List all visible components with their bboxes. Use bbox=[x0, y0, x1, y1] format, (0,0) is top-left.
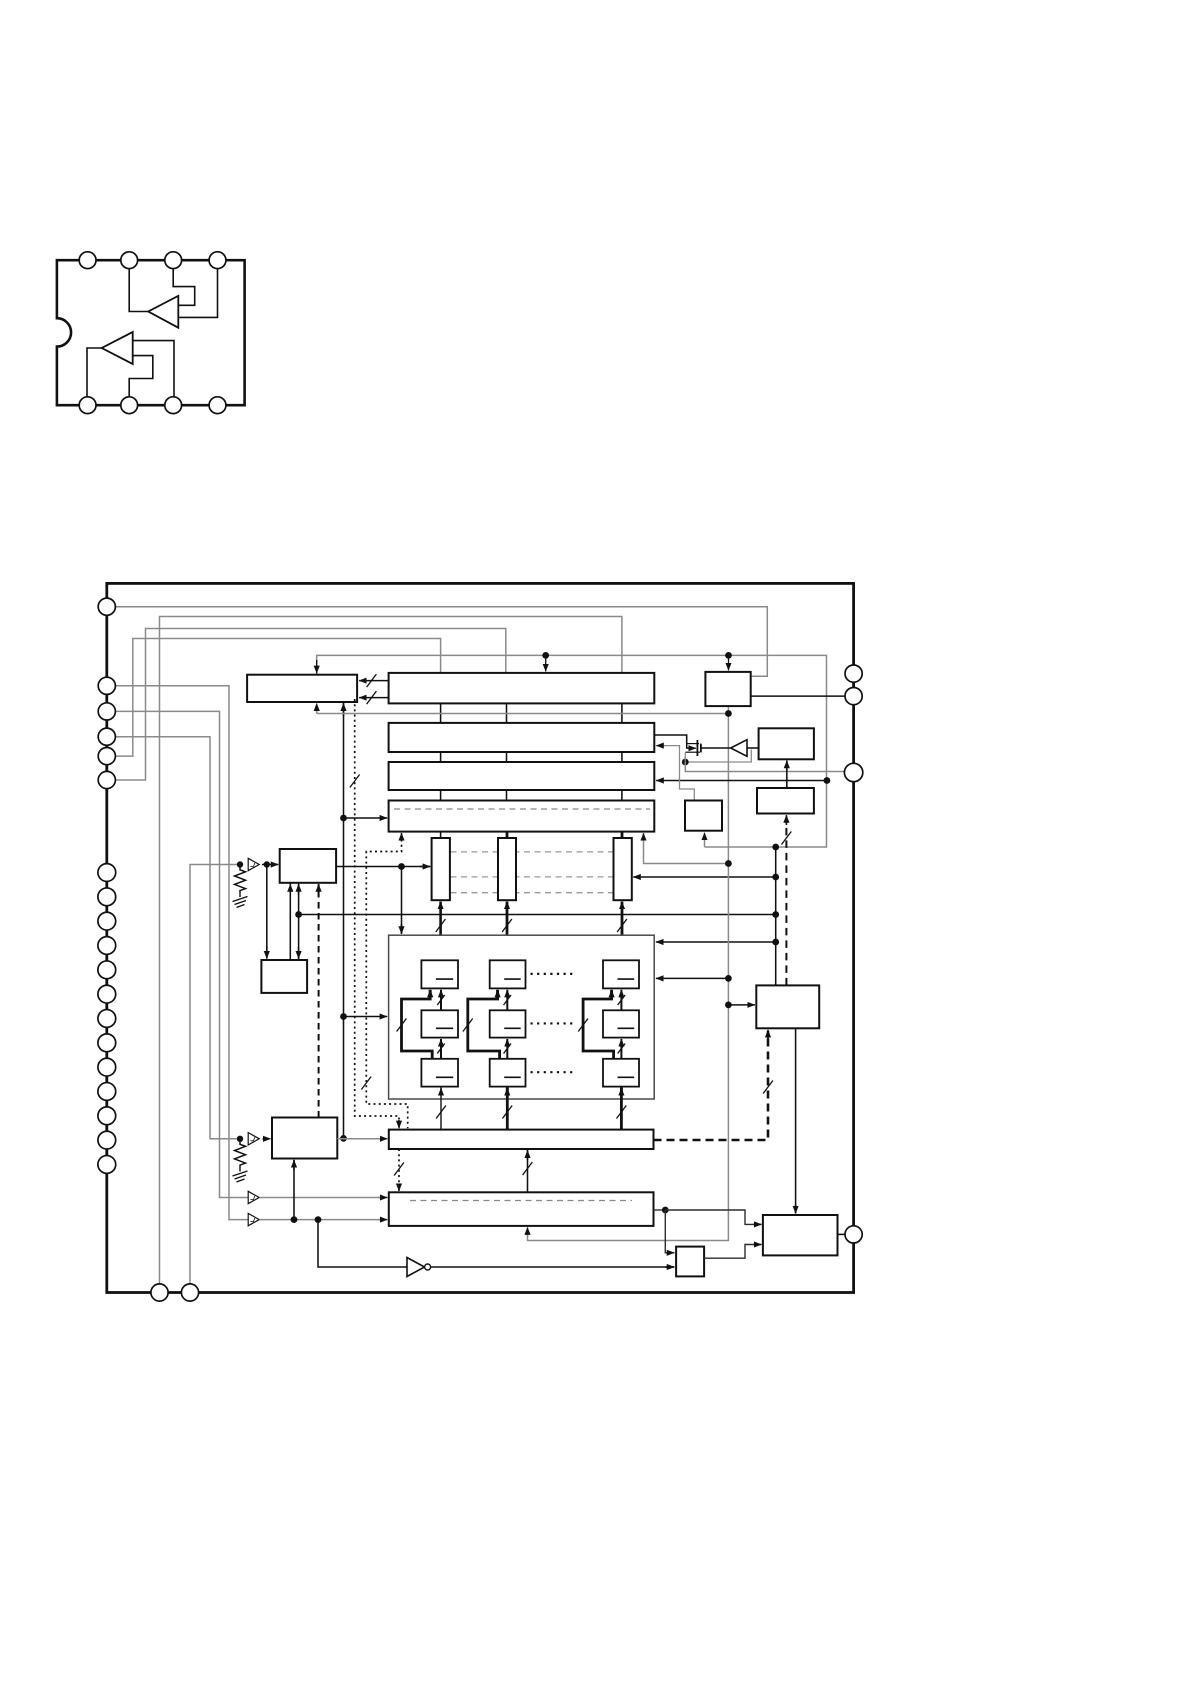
wire D-E right bbox=[621, 790, 623, 801]
block J (status) bbox=[261, 960, 307, 993]
pin circle left chain 2 bbox=[98, 888, 116, 906]
wire MOSFET source stub down bbox=[684, 753, 686, 762]
pin circle left chain 1 bbox=[98, 864, 116, 882]
block L (oscillator) bbox=[272, 1118, 337, 1159]
arrow gray into latch P bottom bbox=[527, 1227, 529, 1236]
arrow Z-path into cell31 bottom bbox=[610, 990, 613, 996]
wire U2 input from package pin7 bbox=[133, 341, 174, 397]
block Q (divider) bbox=[676, 1247, 704, 1277]
wire clock node down to inverter G1 bbox=[318, 1220, 407, 1267]
package top pin 2 bbox=[121, 252, 138, 269]
wire U2 input from package pin6 bbox=[129, 356, 153, 397]
bus cell32 top to cell31 bottom bbox=[620, 990, 622, 1011]
node column rail matrix row bbox=[772, 939, 779, 946]
node junction on control net at B top bbox=[542, 652, 549, 659]
pin circle left y780 bbox=[98, 771, 115, 788]
wire B-C left bbox=[440, 703, 442, 723]
selector bar V2 bbox=[498, 838, 516, 900]
input buffer B2 (Schmitt) bbox=[248, 1133, 259, 1145]
arrow col2 into cell bottom bbox=[506, 1088, 509, 1094]
slash on Z-path col3 bbox=[578, 1019, 588, 1032]
slash on dotted N-P bbox=[394, 1163, 404, 1176]
node junction on control net at F top bbox=[725, 652, 732, 659]
arrow from control net into bus B top bbox=[545, 657, 547, 671]
gray wrap wire driver to source node bbox=[685, 750, 751, 763]
wire F right to pin bbox=[751, 695, 845, 697]
register cell 11 bbox=[421, 960, 458, 988]
pin circle left y711 bbox=[98, 703, 115, 720]
register cell 12 bbox=[421, 1010, 458, 1037]
arrow dashed into K bottom bbox=[318, 884, 320, 896]
slash on V2 bus bbox=[502, 919, 512, 932]
bus cell22 top to cell21 bottom bbox=[506, 990, 508, 1011]
wire package pin3 to U1 input bbox=[173, 269, 195, 306]
wire P top to N bottom bbox=[527, 1149, 529, 1192]
slash col2 lower bbox=[504, 1044, 512, 1054]
node P output bbox=[662, 1207, 669, 1214]
bus V2 bottom to matrix col2 bbox=[506, 902, 509, 936]
wire A bottom feedback to F column bbox=[317, 713, 729, 715]
resistor R1 to ground bbox=[235, 867, 246, 893]
pin circle left chain 10 bbox=[98, 1083, 116, 1101]
wire E bottom connector via gray bbox=[644, 834, 729, 863]
arrow rail into matrix M left bbox=[345, 1016, 387, 1018]
pin circle left chain 4 bbox=[98, 937, 116, 955]
node rail to matrix arrow bbox=[340, 1013, 347, 1020]
wire E bottom to V1 top bbox=[440, 832, 442, 838]
arrow from control net into block I bottom bbox=[704, 833, 706, 847]
node rail to bar E arrow bbox=[340, 815, 347, 822]
package top pin 1 bbox=[79, 252, 96, 269]
arrow G1 output into Q left bbox=[665, 1266, 674, 1268]
arrow L output into latch N left bbox=[378, 1138, 387, 1140]
pin circle NC (right top) bbox=[845, 665, 862, 682]
arrow into MOSFET gate bbox=[688, 747, 697, 749]
bus bar C bbox=[389, 723, 655, 752]
dotted rail E bottom to latch N top bbox=[366, 834, 407, 1128]
wire pin at y737 down to block L input line bbox=[115, 737, 236, 1139]
slash on dotted rail bbox=[350, 775, 360, 788]
arrow into A bottom from rail bbox=[343, 703, 345, 716]
arrow Z-path into cell21 bottom bbox=[496, 990, 499, 996]
pin circle left y606 bbox=[98, 598, 115, 615]
block A (address latch) bbox=[247, 675, 357, 702]
wire C-D mid bbox=[506, 752, 508, 762]
register cell 33 bbox=[603, 1059, 639, 1087]
arrow into R top bbox=[795, 1204, 797, 1213]
arrow into matrix M top bbox=[401, 924, 403, 934]
MOSFET Q1 gate bar bbox=[696, 740, 698, 756]
dashed row between selectors lower bbox=[451, 892, 614, 894]
MOSFET Q1 drain stub bbox=[687, 743, 699, 745]
register cell 31 bbox=[603, 960, 639, 988]
input buffer B1 (Schmitt) bbox=[248, 858, 259, 870]
selector bar V1 bbox=[432, 838, 450, 900]
package top pin 4 bbox=[209, 252, 226, 269]
slash col3 at latch N bbox=[617, 1106, 627, 1119]
bus cell23 top to cell22 bottom bbox=[506, 1039, 508, 1059]
black column rail from control net to O top bbox=[775, 847, 777, 985]
arrow dashed into H bottom bbox=[785, 815, 787, 825]
wire U2 output to package pin5 bbox=[87, 348, 102, 397]
cell 23 value line bbox=[504, 1076, 521, 1078]
dashed wire L top to K bottom bbox=[318, 884, 320, 1117]
input buffer B3 (Schmitt) bbox=[248, 1191, 259, 1203]
pin circle left chain 7 bbox=[98, 1010, 116, 1028]
bus bar E bbox=[389, 801, 655, 832]
wire package pin2 to buffer U1 output bbox=[129, 269, 148, 312]
cell 31 value line bbox=[618, 978, 635, 980]
node K input resistor junction bbox=[237, 861, 243, 867]
slash on lower B-A bus bbox=[367, 691, 377, 704]
arrow into block K left bbox=[262, 864, 278, 866]
slash on P-N wire bbox=[523, 1162, 533, 1175]
wire pin at y756 up to bus B top bbox=[115, 639, 440, 757]
node clock line to inverter bbox=[315, 1216, 322, 1223]
dashed wire O top to H bottom bbox=[785, 817, 787, 986]
pin circle left y756 bbox=[98, 748, 115, 765]
cell 32 value line bbox=[618, 1027, 635, 1029]
slash on Z-path col1 bbox=[397, 1019, 407, 1032]
arrow into K bottom at x290 bbox=[289, 884, 291, 895]
pin circle left y736 bbox=[98, 728, 115, 745]
arrow into L bottom bbox=[293, 1160, 295, 1170]
dotted continuation row 2 bbox=[531, 1022, 576, 1024]
pin circle left chain 11 bbox=[98, 1107, 116, 1125]
selector bar V3 bbox=[614, 838, 632, 900]
slash on V1 bus bbox=[436, 919, 446, 932]
wire control net to decoder A top bbox=[317, 655, 827, 847]
wire O bottom to R top bbox=[795, 1028, 797, 1213]
wire V3 input from column rail bbox=[633, 876, 776, 878]
node gray column at E connector bbox=[725, 860, 732, 867]
block F (I/O control) bbox=[705, 672, 750, 706]
wire block I top to bus C right bbox=[656, 746, 694, 801]
matrix box M bbox=[389, 935, 655, 1099]
arrow Z-path into cell11 bottom bbox=[429, 990, 432, 996]
bus cell12 top to cell11 bottom bbox=[440, 990, 442, 1011]
wire rail x401 down to matrix top bbox=[401, 867, 403, 934]
inverter G1 bbox=[407, 1258, 425, 1277]
pin circle left chain 5 bbox=[98, 961, 116, 979]
dotted rail from A bus down to latch N top bbox=[355, 699, 399, 1126]
IC boundary box bbox=[107, 583, 854, 1292]
pin circle left chain 12 bbox=[98, 1131, 116, 1149]
slash on upper B-A bus bbox=[367, 674, 377, 687]
block G (driver logic) bbox=[759, 728, 814, 759]
wire D-E mid bbox=[506, 790, 508, 801]
node gray column at O input bbox=[725, 1002, 732, 1009]
IC package outline with pin-1 notch bbox=[57, 260, 245, 405]
wire from A bottom down left rail bbox=[343, 702, 345, 1138]
wire node to R upper input bbox=[665, 1210, 761, 1224]
wire K bottom to J top double arrow bbox=[298, 883, 300, 960]
node status line at x298 bbox=[295, 911, 302, 918]
arrow dotted into bar E bottom bbox=[401, 833, 403, 840]
block H (sense) bbox=[757, 788, 814, 814]
wire MOSFET to driver tip bbox=[701, 747, 730, 749]
dotted continuation row 1 bbox=[531, 973, 576, 975]
wire R output to pin bbox=[838, 1233, 846, 1235]
slash col1 at latch N bbox=[436, 1106, 446, 1119]
node gray column at matrix row bbox=[725, 975, 732, 982]
dashed wire latch N right to O bottom bbox=[654, 1031, 769, 1140]
slash col1 lower bbox=[437, 1044, 445, 1054]
node clock line to L bbox=[291, 1216, 298, 1223]
bus V3 bottom to matrix col3 bbox=[621, 902, 624, 936]
register cell 22 bbox=[490, 1010, 526, 1037]
latch bar P bbox=[389, 1192, 654, 1226]
register cell 13 bbox=[421, 1059, 458, 1087]
arrow B3 into latch P left bbox=[378, 1197, 387, 1199]
wire E bottom to V2 top bbox=[506, 832, 509, 838]
register cell 21 bbox=[490, 960, 526, 988]
arrow rail into bar E left bbox=[345, 817, 387, 819]
bus arrow B to A upper bbox=[359, 680, 389, 682]
bus bar D bbox=[389, 762, 655, 790]
arrow into G bottom bbox=[786, 761, 788, 771]
arrow dotted into latch P top bbox=[398, 1184, 400, 1191]
arrow into R left lower bbox=[753, 1244, 762, 1246]
driver U3 (points left) bbox=[731, 740, 747, 757]
cell 22 value line bbox=[504, 1027, 521, 1029]
wire package pin4 to U1 input bbox=[179, 269, 217, 318]
node MOSFET source net bbox=[682, 759, 689, 766]
arrow into block L left bbox=[262, 1138, 271, 1140]
pin circle left y685 bbox=[98, 677, 115, 694]
wire E bottom to V3 top bbox=[621, 832, 624, 838]
pin circle left chain 8 bbox=[98, 1034, 116, 1052]
node after buffer B1 bbox=[264, 861, 270, 867]
package bottom pin 5 bbox=[79, 397, 96, 414]
slash col3 upper bbox=[618, 995, 626, 1005]
bus cell33 top to cell32 bottom bbox=[620, 1039, 622, 1059]
pin circle source net bbox=[844, 763, 862, 781]
bus bar B bbox=[389, 673, 655, 704]
latch bar N bbox=[389, 1130, 654, 1149]
arrow into bus C right bbox=[656, 745, 665, 747]
cell 11 value line bbox=[436, 978, 453, 980]
node K output to matrix-top rail bbox=[398, 863, 405, 870]
register cell 32 bbox=[603, 1010, 639, 1037]
arrow into matrix right edge upper bbox=[656, 941, 776, 943]
cell 12 value line bbox=[436, 1027, 453, 1029]
gray column wire F bottom to latch P bottom bbox=[528, 706, 729, 1240]
package bottom pin 8 bbox=[209, 397, 226, 414]
bus matrix col1 bottom to latch N bbox=[440, 1087, 442, 1130]
wire pin at y780 up to bus B top bbox=[115, 629, 505, 781]
node rail onto K-N gray line bbox=[340, 1135, 347, 1142]
arrow A bottom feedback up into A bbox=[316, 703, 318, 713]
arrow dashed into O bottom bbox=[767, 1030, 769, 1040]
slash col2 upper bbox=[504, 995, 512, 1005]
slash col2 at latch N bbox=[502, 1106, 512, 1119]
arrow into J top at x298 bbox=[298, 947, 300, 959]
arrow into block A top bbox=[316, 660, 318, 673]
pin circle left chain 3 bbox=[98, 912, 116, 930]
bus Z-path col1 bbox=[402, 990, 433, 1059]
wire latch P right to node bbox=[654, 1209, 666, 1211]
wire source net to right pin bbox=[685, 762, 845, 772]
wire J top to K bottom bbox=[289, 883, 291, 960]
wire C-D right bbox=[621, 752, 623, 762]
arrow from control net into block F top bbox=[728, 657, 730, 670]
pin circle left chain 13 bbox=[98, 1156, 116, 1174]
wire clock node up to L bottom bbox=[293, 1160, 295, 1220]
bus Z-path col2 bbox=[468, 990, 500, 1059]
arrow col1 into cell bottom bbox=[440, 1088, 442, 1094]
buffer U2 (bottom, points left) bbox=[102, 332, 133, 364]
dashed row between selectors upper bbox=[451, 851, 614, 853]
bus Z-path col3 bbox=[583, 990, 614, 1059]
arrow dotted rail into latch N top bbox=[398, 1120, 400, 1128]
arrow B4 into latch P left bbox=[378, 1219, 387, 1221]
wire pin at y711 down to register P input line bbox=[115, 711, 248, 1197]
pin circle R output bbox=[845, 1226, 862, 1243]
cell 33 value line bbox=[618, 1076, 635, 1078]
input buffer B4 (Schmitt) bbox=[248, 1213, 259, 1225]
wire pin at y686 down to register P input line bbox=[115, 686, 248, 1220]
wire buffer B4 to latch P bbox=[259, 1219, 387, 1221]
arrow gray into E bottom bbox=[643, 833, 645, 840]
block R (output buffer) bbox=[763, 1215, 838, 1255]
wire gray net into bus D right bbox=[656, 780, 827, 782]
wire buffer node down to block J top bbox=[266, 865, 268, 959]
slash on N-O dashed bbox=[763, 1081, 773, 1094]
arrow into N bottom bbox=[527, 1150, 529, 1160]
wire node down to Q input bbox=[665, 1210, 674, 1253]
ground symbol for R2 bbox=[233, 1168, 248, 1182]
arrow into block J top at x267 bbox=[266, 946, 268, 959]
wire bottom pin via x159 up to bus B top bbox=[160, 617, 622, 1293]
slash on O-H dashed bbox=[782, 832, 792, 845]
node junction control net / column wire bbox=[772, 844, 779, 851]
node gray net at D input bbox=[824, 777, 831, 784]
dotted latch N bottom to latch P top bbox=[398, 1149, 400, 1191]
dotted continuation row 3 bbox=[531, 1071, 576, 1073]
arrow gray node into block O left bbox=[730, 1004, 755, 1006]
bus matrix col2 bottom to latch N bbox=[506, 1087, 509, 1130]
arrow into R left upper bbox=[753, 1223, 762, 1225]
wire B-C mid bbox=[506, 703, 508, 723]
slash on Z-path col2 bbox=[463, 1019, 473, 1032]
package bottom pin 7 bbox=[165, 397, 182, 414]
MOSFET Q1 source stub bbox=[685, 751, 700, 753]
arrow into matrix right edge cell row bbox=[656, 977, 729, 979]
cell 21 value line bbox=[504, 978, 521, 980]
wire pin VDD (top-left) to buffer F right side bbox=[115, 607, 767, 677]
wire inverter G1 to block Q bbox=[431, 1266, 675, 1268]
slash on dotted rail 2 bbox=[361, 1077, 371, 1090]
node column rail status row bbox=[772, 911, 779, 918]
wire D-E left bbox=[440, 790, 442, 801]
wire B-C right bbox=[621, 703, 623, 723]
package top pin 3 bbox=[165, 252, 182, 269]
wire Q output to R lower input bbox=[704, 1245, 761, 1259]
bus cell13 top to cell12 bottom bbox=[440, 1039, 442, 1059]
buffer U1 (top, points left) bbox=[148, 296, 178, 328]
package bottom pin 6 bbox=[121, 397, 138, 414]
dashed row inside bar E bbox=[394, 808, 650, 810]
wire buffer B3 to latch P bbox=[259, 1197, 387, 1199]
wire H top to G bottom bbox=[786, 761, 788, 788]
bus V1 bottom to matrix col1 bbox=[439, 902, 442, 936]
cell 13 value line bbox=[436, 1076, 453, 1078]
arrow col3 into cell bottom bbox=[620, 1088, 623, 1094]
wire bottom pin via x190 up to block K input line bbox=[190, 865, 237, 1293]
arrow into selector V1 left bbox=[420, 866, 430, 868]
slash col3 lower bbox=[618, 1044, 626, 1054]
block K (control) bbox=[280, 849, 336, 883]
pin circle left chain 6 bbox=[98, 985, 116, 1003]
wire driver U3 base to block G bbox=[747, 747, 759, 749]
block O (sequencer) bbox=[756, 985, 819, 1028]
slash col1 upper bbox=[437, 995, 445, 1005]
bus matrix col3 bottom to latch N bbox=[620, 1087, 623, 1130]
node column rail V3 row bbox=[772, 874, 779, 881]
pin circle bottom x190 bbox=[181, 1284, 198, 1301]
wire K output to selector V1 bbox=[336, 866, 430, 868]
dashed row inside bar P bbox=[410, 1200, 632, 1202]
wire L output to latch N bbox=[337, 1138, 387, 1140]
arrow into K bottom at x298 bbox=[298, 884, 300, 895]
arrow into Q left upper bbox=[666, 1252, 674, 1254]
node gray column at A feedback bbox=[725, 710, 732, 717]
bus arrow B to A lower bbox=[359, 697, 389, 699]
pin circle bottom x159 bbox=[151, 1284, 168, 1301]
dashed row between selectors middle bbox=[451, 876, 614, 878]
pin circle F output bbox=[845, 688, 862, 705]
resistor R2 to ground bbox=[235, 1142, 246, 1168]
register cell 23 bbox=[490, 1059, 526, 1087]
ground symbol for R1 bbox=[233, 893, 248, 907]
wire bus C to MOSFET gate bbox=[654, 735, 693, 748]
block I (ref) bbox=[685, 801, 722, 831]
long status line K-J to column rail bbox=[299, 914, 776, 916]
slash on V3 bus bbox=[617, 919, 627, 932]
wire C-D left bbox=[440, 752, 442, 762]
MOSFET Q1 channel bar bbox=[700, 744, 702, 753]
node L input resistor junction bbox=[237, 1136, 243, 1142]
pin circle left chain 9 bbox=[98, 1058, 116, 1076]
